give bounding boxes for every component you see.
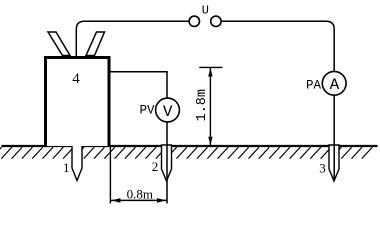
svg-text:0.8m: 0.8m bbox=[127, 187, 153, 202]
ground surface line bbox=[2, 145, 378, 147]
svg-text:2: 2 bbox=[152, 159, 159, 174]
wire box right to voltmeter then electrode 2 and extension line bbox=[110, 72, 167, 204]
dimension 0.8m line bbox=[111, 199, 166, 201]
dimension 0.8m left extension line bbox=[109, 147, 111, 204]
svg-text:3: 3 bbox=[319, 160, 326, 175]
svg-text:1: 1 bbox=[63, 160, 70, 175]
ground hatching bbox=[0, 147, 372, 159]
svg-text:PV: PV bbox=[139, 104, 155, 118]
electrode 1 bbox=[72, 145, 82, 181]
electrode 2 bbox=[162, 145, 172, 181]
wire source terminal to ammeter then electrode 3 bbox=[221, 21, 334, 180]
svg-text:1.8m: 1.8m bbox=[195, 89, 210, 121]
svg-text:U: U bbox=[202, 4, 209, 18]
device brush left bbox=[48, 32, 70, 56]
grounding device box 4 bbox=[46, 58, 110, 147]
dimension 1.8m down arrow bbox=[208, 137, 212, 146]
dimension 1.8m top bar bbox=[199, 66, 222, 68]
voltmeter PV bbox=[156, 98, 180, 122]
svg-text:PA: PA bbox=[306, 79, 322, 93]
dimension 1.8m up arrow bbox=[208, 68, 212, 77]
wire box top to source terminal bbox=[76, 21, 189, 57]
dimension 0.8m left arrow bbox=[111, 198, 120, 203]
device brush right bbox=[86, 32, 105, 56]
source U terminal left bbox=[189, 16, 199, 26]
svg-text:4: 4 bbox=[72, 71, 80, 87]
svg-text:A: A bbox=[330, 76, 340, 94]
electrode 3 bbox=[329, 145, 339, 181]
ammeter PA bbox=[322, 71, 346, 95]
svg-text:V: V bbox=[163, 103, 173, 121]
dimension 0.8m right arrow bbox=[157, 198, 166, 203]
dimension 1.8m vertical line bbox=[209, 67, 211, 145]
source U terminal right bbox=[211, 16, 221, 26]
